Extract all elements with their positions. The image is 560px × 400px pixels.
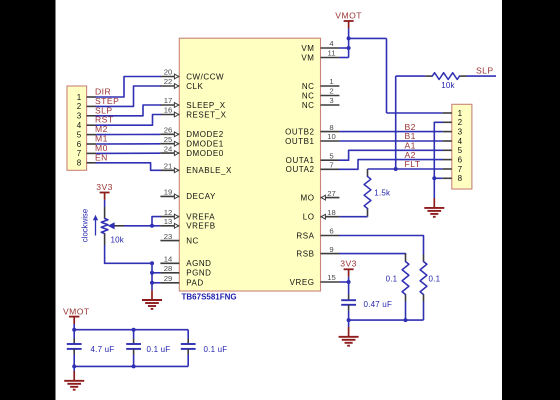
svg-text:VREG: VREG [290,278,315,287]
svg-text:VREFB: VREFB [186,222,215,231]
svg-text:CW/CCW: CW/CCW [186,72,224,81]
svg-text:VMOT: VMOT [63,306,90,316]
svg-text:24: 24 [164,144,173,153]
svg-text:1: 1 [329,77,333,86]
svg-text:2: 2 [77,102,82,111]
svg-text:2: 2 [329,87,333,96]
svg-text:11: 11 [328,49,336,58]
svg-text:8: 8 [329,123,333,132]
svg-text:DMODE0: DMODE0 [186,149,224,158]
svg-text:0.1 uF: 0.1 uF [204,345,228,354]
svg-text:NC: NC [302,101,315,110]
svg-text:1.5k: 1.5k [374,189,391,198]
svg-text:VM: VM [301,53,314,62]
svg-text:7: 7 [458,165,463,174]
svg-text:0.47 uF: 0.47 uF [364,300,393,309]
svg-text:6: 6 [329,227,333,236]
svg-text:23: 23 [164,232,173,241]
svg-text:LO: LO [303,213,315,222]
svg-text:VMOT: VMOT [335,10,362,20]
svg-text:8: 8 [458,174,463,183]
svg-text:6: 6 [77,140,82,149]
svg-text:CLK: CLK [186,82,203,91]
svg-text:NC: NC [186,236,199,245]
svg-text:4: 4 [329,39,334,48]
svg-text:SLP: SLP [476,65,494,75]
svg-text:29: 29 [164,274,173,283]
svg-text:3V3: 3V3 [96,182,113,192]
svg-text:OUTA1: OUTA1 [286,156,315,165]
svg-text:PAD: PAD [186,279,204,288]
svg-text:OUTB1: OUTB1 [285,137,314,146]
svg-text:OUTB2: OUTB2 [285,127,314,136]
svg-text:3: 3 [329,96,333,105]
svg-text:4.7 uF: 4.7 uF [91,345,115,354]
svg-text:1: 1 [458,109,463,118]
svg-text:NC: NC [302,82,315,91]
svg-text:VM: VM [301,44,314,53]
svg-text:19: 19 [164,188,173,197]
svg-text:MO: MO [301,193,315,202]
svg-text:27: 27 [327,189,336,198]
svg-text:1: 1 [77,93,82,102]
svg-text:14: 14 [164,255,173,264]
svg-text:4: 4 [458,137,463,146]
svg-text:NC: NC [302,91,315,100]
svg-text:10: 10 [327,132,336,141]
svg-text:7: 7 [77,149,82,158]
svg-text:TB67S581FNG: TB67S581FNG [182,293,237,302]
svg-text:RSA: RSA [296,231,314,240]
svg-text:5: 5 [458,146,463,155]
svg-text:5: 5 [329,151,333,160]
svg-text:10k: 10k [111,236,125,245]
svg-text:10k: 10k [441,81,455,90]
svg-text:5: 5 [77,130,82,139]
svg-text:PGND: PGND [186,269,211,278]
svg-text:3V3: 3V3 [340,259,357,269]
svg-text:0.1: 0.1 [429,275,441,284]
svg-text:17: 17 [164,96,173,105]
svg-text:16: 16 [164,106,173,115]
svg-text:0.1: 0.1 [386,275,398,284]
svg-text:RSB: RSB [296,249,314,258]
svg-text:EN: EN [95,152,108,162]
svg-text:28: 28 [164,264,173,273]
svg-text:2: 2 [458,118,463,127]
svg-text:DMODE1: DMODE1 [186,140,224,149]
svg-text:4: 4 [77,121,82,130]
svg-text:7: 7 [329,161,333,170]
svg-text:VREFA: VREFA [186,212,215,221]
svg-text:FLT: FLT [405,159,421,169]
svg-text:0.1 uF: 0.1 uF [147,345,171,354]
svg-text:OUTA2: OUTA2 [286,165,315,174]
svg-text:DECAY: DECAY [186,192,216,201]
svg-text:21: 21 [164,162,173,171]
svg-text:AGND: AGND [186,259,211,268]
svg-text:25: 25 [164,135,173,144]
svg-text:3: 3 [458,127,463,136]
svg-text:12: 12 [164,208,173,217]
svg-text:RESET_X: RESET_X [186,110,226,119]
svg-text:18: 18 [327,208,336,217]
svg-text:20: 20 [164,68,173,77]
svg-text:26: 26 [164,126,173,135]
svg-text:9: 9 [329,245,333,254]
svg-text:ENABLE_X: ENABLE_X [186,166,232,175]
svg-text:8: 8 [77,159,82,168]
svg-text:22: 22 [164,77,173,86]
svg-text:13: 13 [164,217,173,226]
svg-text:3: 3 [77,112,82,121]
svg-text:DMODE2: DMODE2 [186,130,224,139]
svg-text:SLEEP_X: SLEEP_X [186,101,226,110]
svg-text:15: 15 [327,273,336,282]
svg-text:6: 6 [458,155,463,164]
svg-text:clockwise: clockwise [80,209,89,242]
